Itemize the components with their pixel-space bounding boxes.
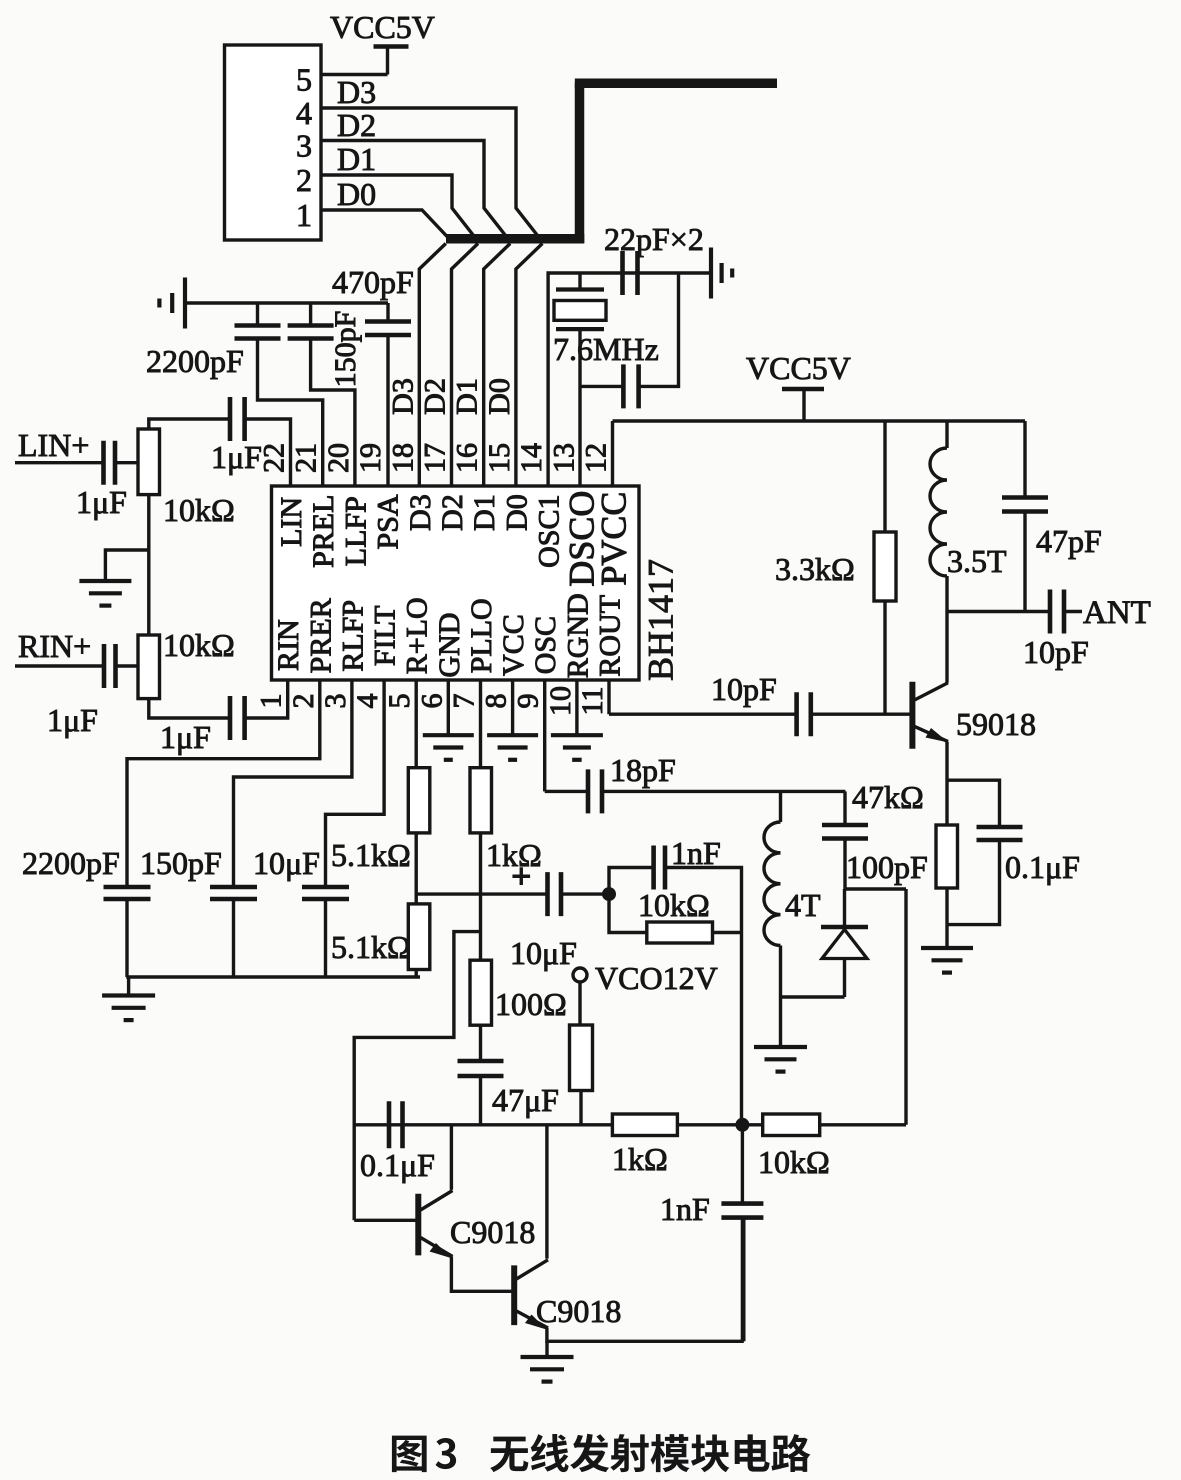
wire ground rail top-left <box>187 301 388 304</box>
svg-text:D2: D2 <box>436 494 469 531</box>
capacitor 10pF (ANT) <box>1048 590 1053 634</box>
svg-text:2: 2 <box>287 694 320 709</box>
wire cap to R-LIN <box>115 461 138 464</box>
bus top horizontal segment <box>575 79 777 89</box>
svg-text:VCC5V: VCC5V <box>746 350 851 386</box>
svg-text:VCC: VCC <box>497 614 530 676</box>
capacitor 1uF (pin22) <box>228 397 233 441</box>
svg-text:20: 20 <box>322 443 355 473</box>
svg-text:LIN: LIN <box>275 497 308 547</box>
svg-text:1: 1 <box>255 694 288 709</box>
svg-text:LIN+: LIN+ <box>18 427 89 463</box>
wire crystal bottom to pin13 <box>578 329 581 486</box>
wire VCO12V down <box>578 982 581 1025</box>
wire Q2 collector up <box>450 1125 453 1190</box>
node junction (loop filter) <box>602 887 616 901</box>
wire R-LIN bottom / R-RIN top with ground tap <box>147 495 150 635</box>
svg-text:C9018: C9018 <box>536 1293 621 1329</box>
capacitor 1uF (LIN input) <box>101 441 106 485</box>
svg-text:47μF: 47μF <box>492 1082 559 1118</box>
svg-text:1nF: 1nF <box>660 1191 710 1227</box>
capacitor 150pF (pin20) <box>309 303 312 326</box>
svg-text:19: 19 <box>354 443 387 473</box>
svg-text:10μF: 10μF <box>510 935 577 971</box>
svg-text:C9018: C9018 <box>450 1214 535 1250</box>
bus exit wire to IC pin at x=515.9 <box>516 244 543 487</box>
svg-text:0.1μF: 0.1μF <box>360 1147 435 1183</box>
wire 10k to varactor riser <box>820 1123 906 1126</box>
wire 0.1uF bottom <box>947 840 1000 925</box>
wire pin5 FILT down <box>415 680 418 768</box>
capacitor 1nF (loop) <box>651 846 656 890</box>
svg-text:2: 2 <box>296 162 312 198</box>
svg-text:100Ω: 100Ω <box>495 986 567 1022</box>
wire 22pF to right riser <box>639 273 679 386</box>
resistor 10k (RIN bias) <box>138 635 160 699</box>
capacitor 1uF (RIN input) <box>102 644 107 688</box>
wire LIN+ input <box>15 461 104 464</box>
ground (top-left, sideways) <box>183 278 187 329</box>
capacitor 10pF (base coupling) <box>794 692 799 736</box>
wire D1 from pin2 <box>321 175 474 236</box>
wire R-RIN bottom to pin1 cap <box>149 699 230 718</box>
wire Q3 collector up <box>545 1125 548 1259</box>
svg-text:7.6MHz: 7.6MHz <box>553 331 659 367</box>
svg-text:D1: D1 <box>451 378 484 415</box>
wire 1nF right <box>665 868 742 933</box>
svg-text:10kΩ: 10kΩ <box>163 627 235 663</box>
svg-text:100pF: 100pF <box>846 849 928 885</box>
svg-text:D2: D2 <box>337 107 376 143</box>
svg-text:ANT: ANT <box>1083 595 1151 631</box>
wire connector pin5 to VCC5V <box>321 73 388 76</box>
ground (pin10 RGND) <box>575 680 578 735</box>
wire pin2 PRER left <box>127 680 320 887</box>
ground (pin6 GND) <box>447 680 450 735</box>
wire VCO bottom rail <box>354 1123 612 1126</box>
svg-text:ROUT: ROUT <box>594 595 627 677</box>
bus exit wire to IC pin at x=451.5 <box>452 244 479 487</box>
svg-text:59018: 59018 <box>956 706 1036 742</box>
svg-text:PREL: PREL <box>307 495 340 568</box>
svg-text:4T: 4T <box>785 887 821 923</box>
svg-text:16: 16 <box>451 443 484 473</box>
ground (tank) <box>779 997 782 1047</box>
capacitor 100pF <box>843 791 846 825</box>
svg-text:1μF: 1μF <box>47 702 98 738</box>
wire 10uF to node <box>561 892 609 895</box>
capacitor 10uF (bottom) <box>302 885 349 890</box>
svg-text:R+LO: R+LO <box>401 597 434 674</box>
svg-text:GND: GND <box>433 613 466 678</box>
svg-text:10pF: 10pF <box>1023 634 1089 670</box>
resistor 3.3k (bias) <box>883 421 886 532</box>
resistor 10k (LIN bias) <box>138 429 160 495</box>
svg-text:17: 17 <box>419 443 452 473</box>
capacitor 18pF <box>586 769 591 813</box>
resistor 5.1k (upper) <box>408 768 430 833</box>
transistor Q3 C9018 <box>511 1265 517 1325</box>
svg-text:47kΩ: 47kΩ <box>852 779 924 815</box>
svg-text:6: 6 <box>415 694 448 709</box>
svg-text:PLLO: PLLO <box>465 598 498 673</box>
svg-text:3: 3 <box>319 694 352 709</box>
svg-text:D0: D0 <box>337 176 376 212</box>
svg-text:3: 3 <box>296 128 312 164</box>
wire crystal bottom rail <box>580 385 623 388</box>
wire tap to VCO buffer <box>354 932 480 1221</box>
diode D1 varactor <box>843 889 846 927</box>
wire 1k to node <box>677 1123 762 1126</box>
wire D3 from pin4 <box>321 108 538 236</box>
svg-text:D1: D1 <box>337 141 376 177</box>
caption text 图3 无线发射模块电路 <box>392 1436 427 1472</box>
svg-text:PVCC: PVCC <box>594 492 634 586</box>
capacitor 1nF (emitter fb) <box>741 1125 744 1204</box>
svg-text:1kΩ: 1kΩ <box>486 837 542 873</box>
wire cap to R-RIN <box>116 664 139 667</box>
svg-text:9: 9 <box>512 694 545 709</box>
wire node down to 10k <box>609 894 647 932</box>
svg-text:10kΩ: 10kΩ <box>758 1144 830 1180</box>
capacitor 2200pF (pin21) <box>256 303 259 326</box>
svg-text:1: 1 <box>296 197 312 233</box>
wire pin14 to crystal top rail <box>548 273 711 486</box>
capacitor 22pF (bottom) <box>621 364 626 408</box>
capacitor 0.1uF (emitter) <box>977 825 1023 830</box>
svg-text:D3: D3 <box>337 74 376 110</box>
wire varactor anode to coil bottom <box>781 995 845 998</box>
capacitor 470pF (pin19) <box>386 303 389 322</box>
wire to ANT <box>1064 610 1082 613</box>
wire Q2 emitter to Q3 base <box>451 1257 512 1292</box>
resistor (VCO feed) <box>570 1025 593 1091</box>
capacitor 10uF electrolytic <box>545 872 550 916</box>
wire node up to 1nF <box>609 868 654 895</box>
svg-text:10kΩ: 10kΩ <box>163 492 235 528</box>
crystal Y1 7.6MHz <box>578 273 581 290</box>
resistor 5.1k (lower) <box>408 904 430 970</box>
wire 10k right to riser <box>713 931 742 934</box>
svg-text:15: 15 <box>483 443 516 473</box>
wire Q3 emitter rail <box>547 1328 744 1341</box>
terminal VCO12V <box>573 968 587 982</box>
svg-text:D0: D0 <box>500 494 533 531</box>
svg-text:10μF: 10μF <box>253 845 320 881</box>
wire R-LIN top to pin22 <box>149 419 230 429</box>
svg-text:1μF: 1μF <box>160 719 211 755</box>
ground (bottom-left) <box>127 977 130 996</box>
node junction (varactor bias) <box>735 1118 749 1132</box>
capacitor 47uF <box>458 1059 504 1064</box>
resistor 1k (VCO) <box>612 1114 677 1136</box>
wire pin3 RLFP left <box>234 680 352 887</box>
resistor 10k (varactor bias) <box>763 1114 820 1136</box>
wire varactor node right <box>845 887 907 890</box>
wire cap to pin22 <box>245 419 291 486</box>
svg-text:150pF: 150pF <box>140 845 222 881</box>
capacitor 2200pF (bottom) <box>104 885 151 890</box>
svg-text:4: 4 <box>296 95 312 131</box>
svg-text:D1: D1 <box>468 494 501 531</box>
capacitor 1uF (pin1) <box>228 696 233 740</box>
capacitor 47pF <box>1023 421 1026 498</box>
svg-text:11: 11 <box>576 687 609 716</box>
resistor 47k (emitter) <box>936 825 958 888</box>
svg-text:RGND: RGND <box>561 593 594 678</box>
svg-text:0.1μF: 0.1μF <box>1005 849 1080 885</box>
svg-text:RLFP: RLFP <box>336 600 369 672</box>
svg-text:21: 21 <box>290 443 323 473</box>
wire pin7 PLLO down <box>479 680 482 768</box>
ground (pin8 VCC) <box>511 680 514 735</box>
ground (emitter) <box>945 925 948 948</box>
svg-text:D3: D3 <box>404 494 437 531</box>
bus exit wire to IC pin at x=483.7 <box>484 244 511 487</box>
svg-text:RIN+: RIN+ <box>18 628 91 664</box>
svg-text:150pF: 150pF <box>329 311 362 388</box>
wire pin9 OSC to 18pF <box>543 680 546 791</box>
svg-text:FILT: FILT <box>369 606 402 667</box>
svg-text:5.1kΩ: 5.1kΩ <box>331 929 411 965</box>
svg-text:D0: D0 <box>483 378 516 415</box>
resistor 100R <box>470 960 492 1025</box>
svg-text:12: 12 <box>580 443 613 473</box>
svg-text:1nF: 1nF <box>671 835 721 871</box>
svg-text:2200pF: 2200pF <box>146 343 244 379</box>
wire VCC rail <box>613 419 1026 422</box>
svg-text:470pF: 470pF <box>332 264 414 300</box>
connector J1 (data input header) <box>225 45 322 240</box>
wire pin4 FILT left <box>326 680 385 887</box>
svg-text:14: 14 <box>515 443 548 473</box>
svg-text:7: 7 <box>447 694 480 709</box>
wire 1k to 100R <box>479 833 482 960</box>
svg-text:3.5T: 3.5T <box>947 543 1007 579</box>
wire emitter down <box>945 742 948 825</box>
wire 18pF to tank <box>602 790 845 793</box>
svg-text:OSC: OSC <box>529 616 562 674</box>
svg-text:3.3kΩ: 3.3kΩ <box>775 551 855 587</box>
svg-text:RIN: RIN <box>272 619 305 671</box>
svg-text:1μF: 1μF <box>76 484 127 520</box>
svg-text:VCC5V: VCC5V <box>330 9 435 45</box>
svg-text:8: 8 <box>480 694 513 709</box>
resistor 1k (PLLO) <box>470 768 492 833</box>
wire cap to base <box>811 713 910 716</box>
wire bottom ground rail <box>126 975 420 978</box>
svg-text:1kΩ: 1kΩ <box>612 1141 668 1177</box>
svg-text:18pF: 18pF <box>610 752 676 788</box>
ground (input bias) <box>79 579 131 583</box>
svg-text:13: 13 <box>547 443 580 473</box>
resistor 10k (loop) <box>647 922 713 943</box>
svg-text:VCO12V: VCO12V <box>595 960 718 996</box>
capacitor 0.1uF (VCO) <box>387 1101 392 1148</box>
svg-text:10: 10 <box>544 686 577 716</box>
wire 5.1k tap to 10uF <box>416 892 547 895</box>
svg-text:5.1kΩ: 5.1kΩ <box>331 837 411 873</box>
bus exit wire to IC pin at x=419.3 <box>419 244 446 487</box>
svg-text:4: 4 <box>351 694 384 709</box>
wire cap to pin1 <box>245 680 288 718</box>
svg-text:BH1417: BH1417 <box>641 559 681 681</box>
wire pin11 ROUT to base <box>607 680 610 714</box>
svg-text:PRER: PRER <box>304 598 337 673</box>
op-amp U1 BH1417 body <box>272 486 640 680</box>
svg-text:5: 5 <box>383 694 416 709</box>
wire D0 from pin1 <box>321 210 448 238</box>
svg-text:2200pF: 2200pF <box>22 845 120 881</box>
svg-text:10kΩ: 10kΩ <box>638 887 710 923</box>
svg-text:22: 22 <box>258 443 291 473</box>
bus horizontal segment <box>446 234 584 244</box>
inductor 3.5T <box>945 421 948 448</box>
ground (crystal, sideways right) <box>709 248 713 299</box>
svg-text:22pF×2: 22pF×2 <box>604 221 704 257</box>
transistor Q2 C9018 <box>415 1194 421 1256</box>
wire collector to ANT coupling <box>947 610 1050 613</box>
svg-text:D3: D3 <box>386 378 419 415</box>
wire D2 from pin3 <box>321 141 506 236</box>
ground (VCO emitter) <box>545 1341 548 1357</box>
svg-text:47pF: 47pF <box>1036 523 1102 559</box>
wire 100R to 47uF <box>479 1025 482 1061</box>
wire 5.1k bottom to ground rail <box>415 970 418 978</box>
svg-text:10pF: 10pF <box>711 671 777 707</box>
svg-text:D2: D2 <box>419 378 452 415</box>
transistor Q1 59018 <box>909 682 915 749</box>
svg-text:18: 18 <box>386 443 419 473</box>
wire between 5.1k resistors <box>415 833 418 904</box>
bus vertical segment <box>575 83 585 243</box>
wire RIN+ input <box>15 664 104 667</box>
inductor 4T <box>779 791 782 822</box>
svg-text:PSA: PSA <box>372 494 405 549</box>
capacitor 150pF (bottom) <box>210 885 257 890</box>
wire emitter tap to 0.1uF <box>947 780 1000 827</box>
svg-text:5: 5 <box>296 62 312 98</box>
svg-text:1μF: 1μF <box>211 439 262 475</box>
svg-text:LLFP: LLFP <box>339 496 372 566</box>
capacitor 22pF (top) <box>620 251 625 295</box>
